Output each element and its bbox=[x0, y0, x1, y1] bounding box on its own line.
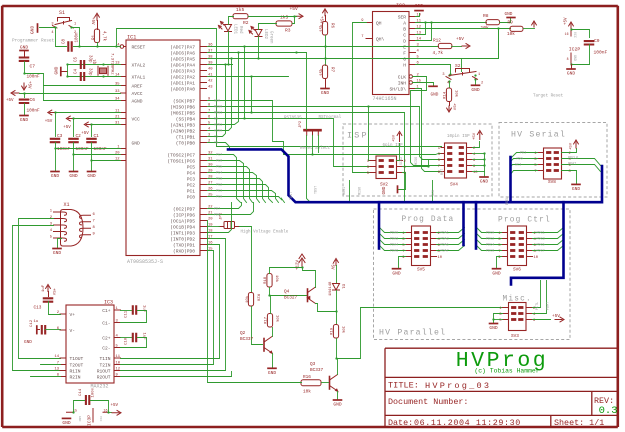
svg-text:GND: GND bbox=[573, 55, 577, 61]
capacitor C2 100nF bbox=[68, 139, 79, 142]
svg-text:H: H bbox=[403, 63, 406, 69]
svg-text:XTAL1: XTAL1 bbox=[132, 75, 146, 81]
wire PD3 to JP1 bbox=[208, 226, 220, 228]
svg-text:1uF: 1uF bbox=[142, 305, 146, 313]
svg-text:1: 1 bbox=[74, 23, 76, 27]
ground below R7 bbox=[325, 79, 327, 89]
svg-text:GND: GND bbox=[392, 270, 401, 276]
wire VCC row C2 bbox=[74, 118, 121, 120]
supply +5V arrow above D1 bbox=[334, 259, 339, 266]
LED LED2 Green bbox=[249, 27, 262, 37]
svg-text:R6: R6 bbox=[330, 23, 334, 29]
svg-text:10: 10 bbox=[534, 256, 539, 260]
svg-text:20: 20 bbox=[208, 218, 213, 222]
power IC3P bbox=[67, 409, 109, 423]
wire R20 to Q2 base bbox=[252, 307, 263, 345]
svg-text:7: 7 bbox=[93, 219, 95, 223]
svg-text:R1IN: R1IN bbox=[70, 369, 81, 375]
svg-text:PC1: PC1 bbox=[216, 189, 222, 193]
bus branch prog data left bbox=[378, 202, 381, 248]
svg-text:AIN0: AIN0 bbox=[214, 129, 222, 133]
svg-text:T1: T1 bbox=[214, 135, 218, 139]
supply +5V arrow right IC3P bbox=[109, 412, 112, 414]
svg-text:7: 7 bbox=[361, 35, 363, 39]
title block frame bbox=[385, 348, 617, 427]
svg-text:Prog Data: Prog Data bbox=[402, 216, 455, 224]
svg-text:HV Parallel: HV Parallel bbox=[379, 328, 446, 338]
wire T1IN to PD1 bbox=[121, 245, 220, 359]
capacitor C3 100nF bbox=[50, 139, 61, 142]
wire VCC row C3 bbox=[56, 112, 121, 114]
wire XTAL2 bbox=[68, 64, 121, 66]
svg-text:C1: C1 bbox=[94, 134, 100, 139]
wire R18 bottom to Q4 base bbox=[270, 288, 307, 296]
svg-text:12: 12 bbox=[116, 368, 121, 372]
svg-text:GND: GND bbox=[431, 93, 439, 98]
svg-text:S1: S1 bbox=[59, 10, 65, 16]
svg-text:PDC4: PDC4 bbox=[486, 243, 494, 247]
wire SV6 pin9 to gnd bbox=[497, 257, 502, 269]
wire R2IN stub bbox=[31, 376, 61, 378]
svg-text:C5: C5 bbox=[75, 56, 79, 62]
svg-text:PC7: PC7 bbox=[216, 153, 222, 157]
wire Q4 emitter to D1 node bbox=[316, 304, 337, 312]
diode D1 1N4148 bbox=[336, 266, 338, 284]
wire gnd to C7 bbox=[24, 51, 26, 58]
wire PB5 drop to bus bbox=[208, 113, 405, 203]
wire AREF bbox=[44, 85, 121, 87]
svg-text:Q2: Q2 bbox=[240, 331, 246, 336]
svg-text:SV8: SV8 bbox=[548, 180, 556, 185]
svg-text:10k: 10k bbox=[341, 326, 346, 334]
svg-text:(OC2)PD7: (OC2)PD7 bbox=[173, 207, 195, 213]
wire reset net to IC1 bbox=[80, 46, 121, 48]
wire LED rail bbox=[229, 17, 234, 25]
wire C14 gnd loop bbox=[74, 401, 85, 413]
capacitor C12 1uF bbox=[36, 325, 38, 334]
svg-text:(ADC3)PA3: (ADC3)PA3 bbox=[170, 69, 195, 75]
svg-text:16: 16 bbox=[565, 32, 569, 36]
svg-text:06.11.2004 11:29:30: 06.11.2004 11:29:30 bbox=[414, 418, 521, 428]
resistor R8 10k bbox=[486, 20, 500, 25]
svg-text:+5V: +5V bbox=[45, 120, 53, 124]
wire SV8 pin8 to gnd bbox=[562, 171, 577, 184]
svg-text:IC2P: IC2P bbox=[569, 47, 581, 53]
svg-text:7,3728MHz: 7,3728MHz bbox=[110, 53, 114, 75]
wire C7 to AREF bbox=[25, 74, 44, 86]
svg-text:GND: GND bbox=[24, 340, 32, 345]
svg-text:IC3: IC3 bbox=[104, 300, 113, 306]
supply +12V arrow bbox=[299, 254, 305, 268]
svg-text:ISP: ISP bbox=[347, 131, 369, 141]
svg-text:+5V: +5V bbox=[319, 16, 323, 24]
svg-text:27: 27 bbox=[208, 182, 213, 186]
svg-text:15: 15 bbox=[208, 248, 213, 252]
svg-text:PDC5: PDC5 bbox=[537, 243, 545, 247]
svg-text:(ADC0)PA0: (ADC0)PA0 bbox=[170, 87, 195, 93]
wire PB6 to SV4 pin5 and SV2 pin1 bbox=[208, 107, 442, 160]
wire C14 +5V loop bbox=[91, 401, 109, 413]
svg-text:C: C bbox=[403, 33, 406, 39]
svg-text:100nF: 100nF bbox=[76, 147, 90, 152]
svg-text:4,7k: 4,7k bbox=[102, 31, 107, 42]
svg-text:(ADC4)PA4: (ADC4)PA4 bbox=[170, 63, 195, 69]
svg-text:10: 10 bbox=[116, 362, 121, 366]
svg-text:R17: R17 bbox=[265, 316, 269, 324]
svg-text:PDA3: PDA3 bbox=[441, 237, 449, 241]
svg-text:R7: R7 bbox=[330, 67, 334, 73]
svg-text:GND: GND bbox=[51, 173, 60, 179]
svg-text:QH\: QH\ bbox=[376, 37, 385, 43]
op IC3 MAX232 box bbox=[66, 305, 114, 383]
svg-text:GND: GND bbox=[492, 270, 501, 276]
svg-text:17: 17 bbox=[208, 236, 213, 240]
wire IC2 C D rows bbox=[416, 23, 426, 35]
bus branch prog data right bbox=[462, 202, 465, 245]
svg-text:18: 18 bbox=[208, 230, 213, 234]
svg-text:PDA0: PDA0 bbox=[390, 231, 398, 235]
svg-text:100nF: 100nF bbox=[94, 147, 108, 152]
svg-text:(ADC5)PA5: (ADC5)PA5 bbox=[170, 57, 195, 63]
svg-text:GND: GND bbox=[62, 420, 71, 426]
svg-text:(ADC1)PA1: (ADC1)PA1 bbox=[170, 81, 195, 87]
svg-text:28: 28 bbox=[208, 176, 213, 180]
svg-text:TITLE:: TITLE: bbox=[388, 381, 419, 391]
wire SV3 pin6 to +5V bbox=[533, 319, 551, 321]
svg-text:RSTnormal: RSTnormal bbox=[319, 115, 342, 120]
svg-text:VCC: VCC bbox=[99, 416, 102, 422]
svg-text:(c) Tobias Hammer: (c) Tobias Hammer bbox=[474, 368, 539, 375]
capacitor C6 100nF bbox=[24, 94, 26, 98]
svg-text:33p: 33p bbox=[88, 68, 92, 76]
svg-text:(MISO)PB6: (MISO)PB6 bbox=[170, 105, 195, 111]
svg-text:+5V: +5V bbox=[565, 17, 569, 25]
svg-text:R9: R9 bbox=[508, 20, 514, 25]
svg-text:+5V: +5V bbox=[452, 103, 456, 111]
svg-text:Red: Red bbox=[238, 26, 243, 34]
svg-text:38: 38 bbox=[208, 56, 213, 60]
wire IC1 GND rows bbox=[56, 148, 121, 150]
bus branch HV serial left bbox=[509, 157, 512, 202]
svg-text:12: 12 bbox=[417, 26, 422, 30]
svg-text:21: 21 bbox=[208, 212, 213, 216]
wire PA2 line bbox=[208, 76, 289, 78]
svg-text:PDAT: PDAT bbox=[568, 162, 576, 166]
wire SV4 gnd rail bbox=[473, 153, 485, 155]
svg-text:TDST: TDST bbox=[315, 186, 319, 194]
svg-text:Green: Green bbox=[269, 31, 273, 44]
svg-text:7: 7 bbox=[438, 165, 440, 169]
connector SV3 bbox=[509, 303, 527, 331]
supply +5V down arrow below R14 bbox=[449, 102, 451, 106]
svg-text:R2: R2 bbox=[243, 20, 249, 26]
svg-text:GND: GND bbox=[87, 173, 96, 179]
svg-text:BC327: BC327 bbox=[284, 296, 298, 301]
svg-text:PC2: PC2 bbox=[216, 183, 222, 187]
wire Q3 node to SV3 pin1 bbox=[337, 308, 503, 359]
svg-text:C2+: C2+ bbox=[102, 336, 111, 342]
capacitor C7 100nF bbox=[19, 58, 30, 61]
svg-text:7: 7 bbox=[208, 110, 210, 114]
wire PB0 into bus start bbox=[208, 143, 230, 150]
svg-text:(MOSI)PB5: (MOSI)PB5 bbox=[170, 111, 195, 117]
wire SV6 right rows to bus bbox=[533, 228, 564, 233]
svg-text:C6: C6 bbox=[30, 97, 36, 103]
wire JP2 pin1 to bus bbox=[307, 136, 311, 203]
svg-text:14: 14 bbox=[54, 355, 59, 359]
svg-text:AVCC: AVCC bbox=[132, 91, 143, 97]
svg-text:Target Reset: Target Reset bbox=[533, 95, 564, 99]
wire R2OUT stub bbox=[121, 372, 232, 377]
IC1 right pin stubs bbox=[200, 47, 207, 251]
wire PD6 stub bbox=[208, 203, 254, 215]
resistor R19 10k bbox=[333, 325, 338, 339]
wire R16 to Q3 base bbox=[322, 382, 329, 384]
wire R8 to gnd bbox=[500, 19, 511, 23]
wire reset net around IC1 top bbox=[117, 29, 442, 147]
connector SV4 bbox=[445, 143, 467, 178]
svg-text:+5V: +5V bbox=[570, 142, 574, 150]
svg-text:C7: C7 bbox=[30, 64, 36, 70]
svg-text:PDC1: PDC1 bbox=[537, 231, 545, 235]
wire IC2 SER to GND bbox=[416, 14, 420, 17]
LED LED1 Red bbox=[219, 22, 232, 32]
svg-text:AT90S8535J-S: AT90S8535J-S bbox=[127, 259, 163, 265]
wire SV2 pin4 bbox=[403, 161, 429, 167]
svg-text:AREF: AREF bbox=[132, 84, 143, 90]
svg-text:(AIN0)PB2: (AIN0)PB2 bbox=[170, 129, 195, 135]
svg-text:VCC: VCC bbox=[573, 32, 577, 38]
resistor R1 4k7 bbox=[95, 13, 100, 20]
resistor R12 4,7k bbox=[438, 43, 452, 48]
svg-text:JP2: JP2 bbox=[299, 120, 303, 128]
svg-text:100nF: 100nF bbox=[594, 50, 608, 56]
svg-text:SCK: SCK bbox=[214, 99, 221, 103]
wire S2 right post to gnd bbox=[475, 80, 477, 85]
svg-text:39: 39 bbox=[208, 62, 213, 66]
wire PD5 to R16 bbox=[208, 221, 302, 383]
wire SV5 left rows from bus bbox=[380, 228, 406, 233]
wire SHLD row to SV4 pin9 bbox=[416, 89, 442, 172]
svg-text:2: 2 bbox=[481, 82, 483, 86]
svg-text:Reset Select: Reset Select bbox=[300, 146, 331, 151]
svg-text:+5V: +5V bbox=[81, 132, 89, 136]
svg-text:GND: GND bbox=[69, 173, 78, 179]
resistor R20 10k bbox=[248, 293, 253, 307]
svg-text:+12V: +12V bbox=[297, 259, 301, 270]
IC3 pin stubs bbox=[60, 310, 121, 377]
jumper JP2 bbox=[305, 130, 321, 135]
svg-text:(TOSC1)PC6: (TOSC1)PC6 bbox=[167, 159, 195, 165]
wire R9 node down to S2 bbox=[462, 29, 499, 72]
jumper JP1 bbox=[219, 222, 239, 229]
svg-text:6pin ISP: 6pin ISP bbox=[383, 143, 404, 148]
svg-text:BC337: BC337 bbox=[310, 368, 324, 373]
wire SV5 right rows to bus bbox=[437, 228, 465, 233]
svg-text:41: 41 bbox=[208, 74, 213, 78]
capacitor C14 100n bbox=[86, 395, 89, 405]
svg-text:LED2: LED2 bbox=[263, 29, 267, 40]
wire CLK row to SV4 pin7 bbox=[411, 77, 442, 166]
svg-text:PDC0: PDC0 bbox=[486, 231, 494, 235]
svg-text:T2IN: T2IN bbox=[99, 363, 110, 369]
svg-text:RESET: RESET bbox=[132, 45, 146, 51]
wire X1 pin3 to R1IN bbox=[13, 226, 61, 371]
wire Q2 collector to R17 bbox=[272, 328, 274, 337]
svg-text:MOSI: MOSI bbox=[214, 111, 222, 115]
wire D1 to R19 bbox=[336, 291, 338, 325]
svg-text:PC4: PC4 bbox=[187, 171, 196, 177]
svg-text:X1: X1 bbox=[64, 202, 70, 208]
svg-text:HV Serial: HV Serial bbox=[511, 130, 566, 140]
wire SV3 pin4 up bbox=[533, 281, 547, 314]
svg-text:C9: C9 bbox=[594, 38, 600, 44]
svg-text:1uF: 1uF bbox=[142, 333, 146, 341]
svg-text:VCC: VCC bbox=[132, 117, 141, 123]
svg-text:PDO: PDO bbox=[517, 157, 523, 161]
svg-text:SV4: SV4 bbox=[450, 183, 458, 188]
svg-text:SH/LD\: SH/LD\ bbox=[389, 87, 406, 93]
svg-text:PDA5: PDA5 bbox=[441, 243, 449, 247]
svg-text:LED1: LED1 bbox=[233, 24, 237, 35]
svg-text:(T0)PB0: (T0)PB0 bbox=[176, 141, 196, 147]
wire LED2 cathode to PA5 line bbox=[258, 37, 260, 59]
wire PB riser fan bbox=[208, 65, 226, 137]
svg-text:IC1: IC1 bbox=[127, 35, 136, 41]
svg-text:PC1: PC1 bbox=[187, 189, 196, 195]
bus branch prog ctrl left bbox=[475, 202, 478, 248]
wire PA4 line to LED1 bbox=[208, 64, 233, 66]
svg-text:Q1: Q1 bbox=[94, 59, 98, 64]
svg-text:R16: R16 bbox=[303, 375, 311, 380]
capacitor C10 1uF bbox=[121, 337, 132, 339]
svg-text:C1-: C1- bbox=[102, 321, 110, 327]
svg-text:(INT1)PD3: (INT1)PD3 bbox=[170, 231, 195, 237]
svg-text:PDC6: PDC6 bbox=[486, 249, 494, 253]
svg-text:PDC3: PDC3 bbox=[537, 237, 545, 241]
svg-text:MOSI: MOSI bbox=[343, 187, 347, 195]
svg-text:R19: R19 bbox=[331, 327, 335, 335]
svg-text:Q4: Q4 bbox=[284, 290, 290, 295]
svg-text:E: E bbox=[403, 45, 406, 51]
IC2 pin stubs bbox=[366, 17, 416, 89]
svg-text:GND: GND bbox=[489, 325, 498, 331]
svg-text:GND: GND bbox=[30, 25, 36, 34]
svg-text:40: 40 bbox=[208, 68, 213, 72]
svg-text:C1+: C1+ bbox=[102, 308, 111, 314]
wire C1 to gnd bbox=[91, 143, 93, 172]
wire AGND link bbox=[43, 86, 45, 101]
svg-text:PDCLK: PDCLK bbox=[568, 156, 579, 160]
svg-text:0.3: 0.3 bbox=[599, 405, 618, 417]
svg-text:D1: D1 bbox=[341, 284, 345, 289]
svg-text:8: 8 bbox=[567, 57, 569, 61]
svg-text:IC2: IC2 bbox=[396, 3, 405, 9]
svg-text:SER: SER bbox=[398, 15, 407, 21]
capacitor C1 100nF bbox=[86, 139, 97, 142]
connector SV6 bbox=[508, 226, 527, 266]
svg-text:AGND: AGND bbox=[132, 99, 143, 105]
svg-text:10: 10 bbox=[438, 256, 443, 260]
svg-text:TDST: TDST bbox=[290, 192, 294, 200]
svg-text:PCTL: PCTL bbox=[536, 302, 540, 310]
svg-text:16: 16 bbox=[104, 409, 108, 413]
svg-text:GND: GND bbox=[505, 12, 513, 17]
wire INH row to gnd bbox=[413, 83, 434, 86]
HV Parallel dashed box bbox=[374, 209, 571, 340]
svg-text:10pin ISP: 10pin ISP bbox=[447, 134, 470, 139]
bus branch prog ctrl right to misc bbox=[511, 202, 564, 284]
svg-text:MISO: MISO bbox=[415, 157, 419, 165]
bus main bbox=[228, 149, 602, 202]
svg-text:14: 14 bbox=[417, 38, 422, 42]
wire T2IN to PD0 bbox=[121, 251, 214, 365]
svg-text:10k: 10k bbox=[454, 90, 459, 98]
wire IC2 H row to S2 bbox=[416, 65, 451, 75]
svg-text:MISO: MISO bbox=[214, 105, 222, 109]
svg-text:SCK: SCK bbox=[432, 189, 436, 196]
resistor R7 bbox=[322, 65, 327, 79]
svg-text:1k5: 1k5 bbox=[280, 14, 289, 20]
svg-text:PDI: PDI bbox=[520, 151, 526, 155]
svg-text:MISO: MISO bbox=[359, 187, 363, 195]
wire PB7 to SV4 pin3 bbox=[208, 101, 442, 155]
svg-text:G: G bbox=[403, 57, 406, 63]
wire X1 pin2 to T1OUT bbox=[19, 219, 61, 359]
svg-text:100n: 100n bbox=[76, 32, 80, 43]
svg-text:4,7k: 4,7k bbox=[433, 51, 444, 56]
junction dots misc bbox=[54, 26, 56, 28]
svg-text:(TOSC2)PC7: (TOSC2)PC7 bbox=[167, 153, 195, 159]
svg-text:R2IN: R2IN bbox=[70, 375, 81, 381]
svg-text:GND: GND bbox=[333, 402, 342, 408]
svg-text:SV6: SV6 bbox=[513, 268, 521, 273]
svg-text:B: B bbox=[403, 27, 406, 33]
svg-text:(SS)PB4: (SS)PB4 bbox=[176, 117, 196, 123]
svg-text:37: 37 bbox=[208, 50, 213, 54]
svg-text:(ICP)PD6: (ICP)PD6 bbox=[173, 213, 195, 219]
wire +5V to R1 bbox=[97, 21, 99, 30]
supply +5V arrow for C1 bbox=[84, 122, 91, 127]
connector SV2 bbox=[376, 156, 397, 179]
svg-text:XTAL2: XTAL2 bbox=[132, 63, 146, 69]
svg-text:HVProg_03: HVProg_03 bbox=[425, 381, 491, 391]
svg-text:(OC1B)PD4: (OC1B)PD4 bbox=[170, 225, 195, 231]
wire R6 to divider node bbox=[325, 16, 327, 22]
svg-text:1uF: 1uF bbox=[42, 284, 46, 292]
svg-text:+5V: +5V bbox=[393, 134, 397, 142]
wire C13 to V+ bbox=[49, 302, 61, 315]
svg-text:INH: INH bbox=[398, 81, 407, 87]
wire SV3 pin2 up bbox=[533, 281, 541, 308]
svg-text:+5V: +5V bbox=[290, 6, 299, 12]
svg-text:SCI: SCI bbox=[515, 163, 521, 167]
svg-text:+5V: +5V bbox=[90, 17, 94, 25]
wire R1OUT to PD2 bbox=[121, 239, 226, 371]
svg-text:GND: GND bbox=[480, 179, 489, 185]
svg-text:13: 13 bbox=[417, 32, 422, 36]
svg-text:IC3P: IC3P bbox=[87, 415, 93, 426]
wire VCC row C1 bbox=[92, 124, 121, 126]
svg-text:GND: GND bbox=[415, 3, 424, 9]
svg-text:4: 4 bbox=[447, 82, 449, 86]
supply +5V arrow for C3 bbox=[48, 110, 55, 115]
svg-text:43: 43 bbox=[208, 86, 213, 90]
svg-text:+5V: +5V bbox=[6, 99, 14, 103]
wire X1 pin5 to gnd bbox=[58, 239, 62, 249]
svg-text:V-: V- bbox=[70, 328, 76, 334]
wire R18 top to +12V rail bbox=[270, 268, 303, 274]
